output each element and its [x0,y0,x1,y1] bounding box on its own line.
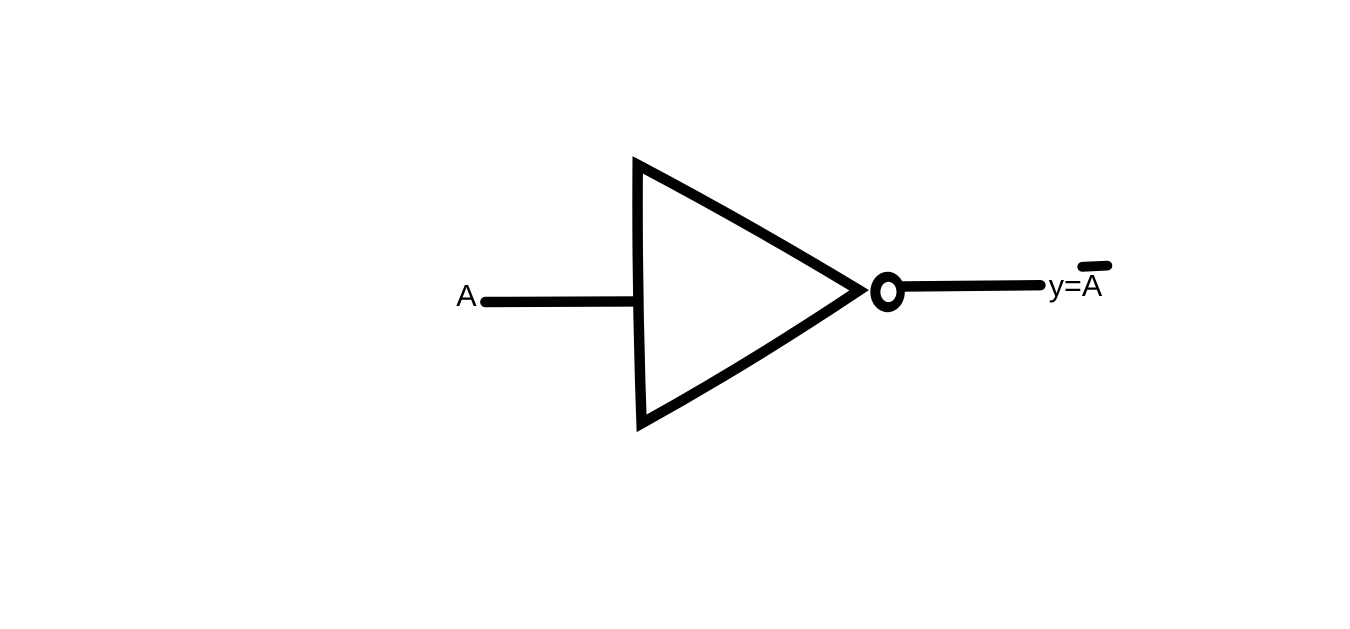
svg-text:A: A [456,279,477,313]
svg-text:y=A: y=A [1049,269,1103,303]
wire (input from A to inverter) [485,296,638,307]
overbar on A (NOT bar) [1082,266,1107,267]
inversion bubble [870,272,905,313]
wire (output from bubble to y) [901,285,1041,286]
inverter U1 (triangle body) [638,165,860,424]
